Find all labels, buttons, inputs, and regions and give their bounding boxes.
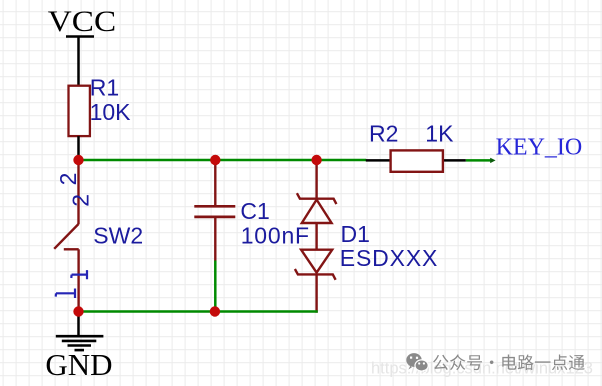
wire VCC to R1 [77,37,80,87]
svg-text:100nF: 100nF [241,222,310,248]
wire top horizontal net [77,159,366,162]
junction C1 bottom [210,306,220,316]
switch SW2 blade [54,224,78,249]
svg-text:2: 2 [67,194,93,207]
wire C1 to bottom net [214,261,217,312]
svg-text:10K: 10K [90,99,132,125]
resistor R1 [69,86,90,136]
capacitor C1 pin 1 [214,160,216,205]
watermark text gongzhonghao dianlu yidiantong [433,354,585,370]
resistor R2 pin 1 [366,159,391,162]
capacitor C1 plate 2 [194,216,235,219]
svg-text:C1: C1 [240,198,269,224]
ground GND bar 1 [56,335,104,338]
resistor R2 [391,150,443,171]
switch SW2 pin 1 wire [77,249,79,311]
diode D1 middle wire [315,223,317,250]
SW2 pin number 1 inner [71,270,87,279]
diode D1 bottom triangle [301,250,332,273]
wire R1 to node A [77,136,80,160]
junction D1 top [311,155,321,165]
junction C1 top [210,155,220,165]
ground GND bar 2 [62,340,97,343]
wire node to GND [77,312,80,337]
svg-text:VCC: VCC [48,5,116,38]
svg-text:R1: R1 [90,74,119,100]
svg-text:GND: GND [45,347,112,382]
wire bottom horizontal net [79,310,318,313]
switch SW2 pin 2 wire [77,160,79,224]
diode D1 pin 2 [315,274,317,312]
wire end arrow [490,158,495,163]
wire R2 output to KEY_IO [466,159,491,162]
diode D1 top triangle [302,200,332,223]
switch SW2 contact [64,248,79,250]
svg-text:D1: D1 [341,221,370,247]
junction node A (R1/SW2/top net) [73,155,83,165]
svg-text:2: 2 [55,173,81,186]
svg-text:ESDXXX: ESDXXX [340,245,438,271]
ground GND bar 4 [75,349,85,352]
diode D1 top cathode bar [297,193,337,204]
svg-text:SW2: SW2 [93,223,143,249]
svg-text:R2: R2 [369,121,398,147]
ground GND bar 3 [68,344,92,347]
junction SW2/GND bottom [73,306,83,316]
capacitor C1 plate 1 [194,205,235,208]
diode D1 pin 1 [315,160,317,199]
power port VCC bar [66,35,94,38]
SW2 pin number 1 outer [56,289,75,299]
watermark wechat icon [406,353,428,373]
diode D1 bottom cathode bar [295,269,336,280]
resistor R2 pin 2 [443,159,466,162]
svg-text:KEY_IO: KEY_IO [496,135,583,161]
svg-text:1K: 1K [425,121,454,147]
capacitor C1 pin 2 [214,218,216,261]
